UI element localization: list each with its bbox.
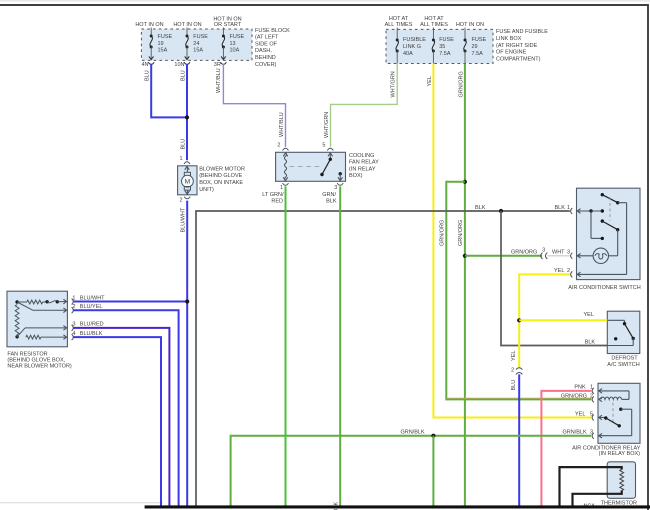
svg-text:YEL: YEL bbox=[554, 268, 564, 274]
svg-text:2: 2 bbox=[590, 393, 593, 399]
defrost a/c switch open contact bbox=[614, 337, 617, 340]
svg-text:PNK: PNK bbox=[574, 385, 586, 391]
wire WHT to air conditioner switch pin 3 bbox=[548, 255, 570, 257]
cooling fan relay switch bbox=[329, 152, 331, 159]
svg-text:YEL: YEL bbox=[427, 76, 433, 86]
wire YEL from air conditioner switch pin 2 bbox=[519, 274, 570, 367]
air conditioner relay pin 3 bbox=[592, 433, 594, 439]
junction GRN/ORG lower bbox=[463, 254, 467, 258]
svg-text:DEFROST: DEFROST bbox=[611, 355, 638, 361]
svg-text:GRN/: GRN/ bbox=[322, 192, 336, 198]
svg-text:GRN/ORG: GRN/ORG bbox=[458, 220, 464, 246]
svg-text:1: 1 bbox=[72, 295, 75, 301]
svg-text:5: 5 bbox=[590, 411, 593, 417]
fuse 29 7.5A bbox=[464, 28, 466, 41]
svg-text:FUSE BLOCK: FUSE BLOCK bbox=[255, 28, 290, 34]
blower motor pin 1 bbox=[184, 162, 190, 164]
cooling fan relay pin 2 bbox=[283, 148, 289, 150]
air conditioner switch S1 internals bbox=[577, 210, 603, 212]
wire WHT/BLU from fuse 13 to cooling fan relay pin 2 bbox=[223, 64, 285, 147]
connector 10N bbox=[184, 62, 190, 64]
cooling fan relay pin 3 contact bbox=[339, 172, 342, 175]
svg-text:2: 2 bbox=[179, 198, 182, 204]
svg-text:1: 1 bbox=[590, 385, 593, 391]
svg-text:GRN/ORG: GRN/ORG bbox=[440, 220, 446, 246]
svg-text:3: 3 bbox=[334, 185, 337, 191]
svg-text:2: 2 bbox=[277, 142, 280, 148]
fan resistor box bbox=[7, 291, 67, 347]
svg-text:YEL: YEL bbox=[511, 351, 517, 361]
wire BLK branch to defrost a/c switch bbox=[501, 211, 607, 346]
svg-text:10A: 10A bbox=[230, 47, 240, 53]
thermistor box bbox=[607, 462, 635, 499]
svg-text:4N: 4N bbox=[141, 62, 148, 68]
svg-text:LT GRN/: LT GRN/ bbox=[262, 192, 284, 198]
svg-text:YEL: YEL bbox=[575, 411, 585, 417]
blower motor pin 2 bbox=[184, 197, 190, 199]
svg-text:BOX): BOX) bbox=[349, 173, 363, 179]
wire BLU/RED fan resistor pin 3 bbox=[73, 328, 169, 506]
fuse 19 15A bbox=[150, 28, 152, 37]
svg-text:YEL: YEL bbox=[584, 312, 594, 318]
air conditioner relay pin 2 bbox=[592, 396, 594, 402]
svg-text:BLU/WHT: BLU/WHT bbox=[80, 295, 105, 301]
wire BLU from fuse 24 to blower motor pin 1 bbox=[186, 64, 188, 160]
svg-text:HOT AT: HOT AT bbox=[389, 16, 409, 22]
svg-text:GRN/ORG: GRN/ORG bbox=[458, 71, 464, 97]
svg-text:29: 29 bbox=[472, 44, 478, 50]
wire BLU to bottom bbox=[518, 374, 520, 506]
air conditioner relay K2 internals bbox=[598, 390, 629, 392]
cooling fan relay pin 5 bbox=[327, 148, 333, 150]
svg-text:DASH,: DASH, bbox=[255, 48, 272, 54]
svg-text:GRN/ORG: GRN/ORG bbox=[511, 250, 537, 256]
cooling fan relay pin 3 bbox=[337, 183, 343, 185]
svg-text:(IN RELAY: (IN RELAY bbox=[349, 166, 376, 172]
svg-text:2: 2 bbox=[72, 304, 75, 310]
svg-text:FUSE: FUSE bbox=[439, 37, 454, 43]
connector 3R bbox=[220, 62, 226, 64]
svg-text:OR START: OR START bbox=[214, 22, 242, 28]
svg-text:BEHIND: BEHIND bbox=[255, 55, 276, 61]
fuse 35 7.5A bbox=[432, 28, 434, 41]
air conditioner relay pin 5 bbox=[592, 415, 594, 421]
svg-text:35: 35 bbox=[439, 44, 445, 50]
wire GRN/ORG from fuse 29 to bottom bbox=[464, 64, 466, 506]
wire BLU/WHT fan resistor pin 1 bbox=[73, 301, 186, 303]
svg-text:BLU: BLU bbox=[180, 70, 186, 81]
svg-text:FUSE AND FUSIBLE: FUSE AND FUSIBLE bbox=[496, 29, 548, 35]
svg-text:BLU: BLU bbox=[145, 70, 151, 81]
fan resistor pin 3 bbox=[72, 325, 74, 331]
air conditioner switch lamp bbox=[593, 248, 608, 263]
svg-text:WHT/BLU: WHT/BLU bbox=[279, 112, 285, 137]
inline connector 3 GRN/ORG to WHT bbox=[541, 253, 543, 259]
svg-text:FUSE: FUSE bbox=[158, 34, 173, 40]
svg-text:HOT AT: HOT AT bbox=[424, 16, 444, 22]
svg-text:FAN RESISTOR: FAN RESISTOR bbox=[7, 351, 47, 357]
svg-text:(BEHIND GLOVE: (BEHIND GLOVE bbox=[199, 173, 242, 179]
cooling fan relay K1 coil bbox=[284, 153, 286, 181]
junction BLU/WHT bbox=[185, 299, 189, 303]
svg-text:(AT RIGHT SIDE: (AT RIGHT SIDE bbox=[496, 43, 538, 49]
svg-text:19: 19 bbox=[158, 41, 164, 47]
svg-text:1: 1 bbox=[280, 185, 283, 191]
svg-text:LINK G: LINK G bbox=[403, 44, 421, 50]
svg-text:ALL TIMES: ALL TIMES bbox=[385, 22, 413, 28]
cooling fan relay mechanical link (dashed) bbox=[290, 165, 322, 167]
svg-text:7.5A: 7.5A bbox=[439, 51, 451, 57]
svg-text:2: 2 bbox=[567, 268, 570, 274]
svg-text:FUSE: FUSE bbox=[472, 37, 487, 43]
svg-text:WHT/GRN: WHT/GRN bbox=[324, 112, 330, 138]
svg-text:13: 13 bbox=[230, 41, 236, 47]
blower motor box bbox=[178, 166, 197, 195]
junction GRN/BLK bbox=[431, 434, 435, 438]
svg-text:FUSE: FUSE bbox=[230, 34, 245, 40]
svg-text:BOX, ON INTAKE: BOX, ON INTAKE bbox=[199, 180, 243, 186]
svg-text:BLOWER MOTOR: BLOWER MOTOR bbox=[199, 166, 245, 172]
inline connector 2 YEL to BLU bbox=[516, 368, 522, 370]
fuse and fusible link box dashed box bbox=[386, 29, 493, 63]
svg-text:40A: 40A bbox=[403, 51, 413, 57]
wire GRN/BLK net to air conditioner relay pin 3 bbox=[231, 436, 592, 506]
svg-text:A/C SWITCH: A/C SWITCH bbox=[607, 362, 639, 368]
svg-text:(AT LEFT: (AT LEFT bbox=[255, 35, 279, 41]
defrost a/c switch box bbox=[607, 311, 640, 353]
svg-text:GRN/ORG: GRN/ORG bbox=[561, 393, 587, 399]
svg-text:15A: 15A bbox=[193, 47, 203, 53]
svg-text:COVER): COVER) bbox=[255, 62, 277, 68]
fuse 24 15A bbox=[186, 28, 188, 37]
wire YEL from fuse 35 to air conditioner relay pin 5 bbox=[433, 64, 591, 418]
svg-text:RED: RED bbox=[271, 198, 283, 204]
svg-text:GRN/BLK: GRN/BLK bbox=[400, 430, 424, 436]
wire BLK ground net from corner to air conditioner switch pin 1 bbox=[196, 211, 570, 506]
wire BLU/BLK fan resistor pin 4 bbox=[73, 337, 161, 506]
svg-text:7.5A: 7.5A bbox=[472, 51, 484, 57]
wire YEL spur to defrost a/c switch bbox=[519, 319, 607, 321]
svg-text:1: 1 bbox=[179, 156, 182, 162]
cooling fan relay box bbox=[276, 152, 346, 181]
svg-text:2: 2 bbox=[511, 368, 514, 374]
svg-text:HOT IN ON: HOT IN ON bbox=[173, 22, 201, 28]
fusible link G 40A bbox=[396, 28, 398, 41]
air conditioner relay box bbox=[598, 383, 640, 443]
wire LT GRN/RED from cooling fan relay pin 1 to bottom bbox=[285, 186, 287, 506]
svg-text:OF ENGINE: OF ENGINE bbox=[496, 50, 527, 56]
air conditioner switch pin 1 bbox=[571, 208, 573, 214]
svg-text:3R: 3R bbox=[214, 62, 221, 68]
svg-text:15A: 15A bbox=[158, 47, 168, 53]
svg-text:WHT: WHT bbox=[552, 250, 565, 256]
air conditioner switch box bbox=[577, 188, 641, 279]
fan resistor R1 internals bbox=[15, 305, 19, 335]
svg-text:5: 5 bbox=[322, 142, 325, 148]
svg-text:GRN/BLK: GRN/BLK bbox=[563, 430, 587, 436]
svg-text:BLK: BLK bbox=[555, 205, 566, 211]
junction BLK bbox=[499, 209, 503, 213]
air conditioner relay pin 1 bbox=[592, 388, 594, 394]
cooling fan relay pin 1 bbox=[283, 183, 289, 185]
wire BLU/YEL fan resistor pin 2 bbox=[73, 310, 179, 506]
svg-text:(BEHIND GLOVE BOX,: (BEHIND GLOVE BOX, bbox=[7, 357, 65, 363]
blower motor M1 internals bbox=[186, 166, 188, 173]
svg-text:SIDE OF: SIDE OF bbox=[255, 41, 278, 47]
junction GRN/ORG upper bbox=[463, 180, 467, 184]
thermistor R2 internals bbox=[620, 470, 624, 491]
wire GRN/ORG spur to inline connector bbox=[465, 255, 542, 257]
fan resistor pin 2 bbox=[72, 307, 74, 313]
wire BLU from fuse 19 to junction bbox=[151, 64, 186, 118]
svg-text:BLU/BLK: BLU/BLK bbox=[80, 331, 103, 337]
svg-text:WHT/BLU: WHT/BLU bbox=[216, 68, 222, 93]
svg-text:BLU/RED: BLU/RED bbox=[80, 322, 104, 328]
svg-text:AIR CONDITIONER SWITCH: AIR CONDITIONER SWITCH bbox=[568, 285, 640, 291]
fan resistor pin 1 bbox=[72, 299, 74, 305]
fuse 13 10A bbox=[222, 28, 224, 37]
svg-text:WHT/GRN: WHT/GRN bbox=[391, 71, 397, 97]
wire GRN/BLK from cooling fan relay pin 3 to bottom bbox=[339, 186, 341, 506]
svg-text:ALL TIMES: ALL TIMES bbox=[420, 22, 448, 28]
svg-text:3: 3 bbox=[567, 250, 570, 256]
svg-text:(IN RELAY BOX): (IN RELAY BOX) bbox=[599, 451, 641, 457]
wire PNK from air conditioner relay pin 1 bbox=[541, 391, 591, 506]
wire GRN/BLK drop to bottom bbox=[432, 436, 434, 506]
svg-text:3: 3 bbox=[590, 430, 593, 436]
connector 4N bbox=[148, 62, 154, 64]
svg-text:M: M bbox=[185, 179, 191, 186]
defrost a/c switch S2 internals bbox=[607, 319, 624, 321]
svg-text:24: 24 bbox=[193, 41, 199, 47]
wire to thermistor (top lead) bbox=[560, 467, 622, 507]
svg-text:BLU/YEL: BLU/YEL bbox=[80, 304, 103, 310]
svg-text:BLU/WHT: BLU/WHT bbox=[181, 207, 187, 232]
svg-text:BLU: BLU bbox=[511, 380, 517, 391]
junction BLU bbox=[185, 115, 189, 119]
svg-text:BLU: BLU bbox=[180, 139, 186, 150]
svg-text:BLK: BLK bbox=[475, 205, 486, 211]
svg-text:3: 3 bbox=[542, 247, 545, 253]
fuse block (at left side of dash) dashed box bbox=[141, 29, 252, 60]
svg-text:HOT IN ON: HOT IN ON bbox=[456, 22, 484, 28]
svg-text:HOT IN ON: HOT IN ON bbox=[135, 22, 163, 28]
svg-text:UNIT): UNIT) bbox=[199, 187, 214, 193]
svg-text:BLK: BLK bbox=[585, 339, 596, 345]
svg-text:NEAR BLOWER MOTOR): NEAR BLOWER MOTOR) bbox=[7, 364, 72, 370]
svg-text:COOLING: COOLING bbox=[349, 153, 374, 159]
svg-text:FUSIBLE: FUSIBLE bbox=[403, 37, 426, 43]
svg-text:1: 1 bbox=[567, 205, 570, 211]
air conditioner switch pin 3 bbox=[571, 253, 573, 259]
air conditioner switch pin 2 bbox=[571, 271, 573, 277]
svg-text:BLK: BLK bbox=[326, 198, 337, 204]
wire to thermistor (bottom lead) NCA bbox=[573, 491, 622, 508]
svg-text:COMPARTMENT): COMPARTMENT) bbox=[496, 56, 541, 62]
svg-text:LINK BOX: LINK BOX bbox=[496, 36, 522, 42]
svg-text:10N: 10N bbox=[174, 62, 184, 68]
wire WHT/GRN from fusible link G to cooling fan relay pin 5 bbox=[331, 64, 398, 147]
wire BLU/WHT from blower motor pin 2 to bottom bbox=[186, 201, 188, 506]
junction YEL bbox=[517, 318, 521, 322]
fan resistor pin 4 bbox=[72, 334, 74, 340]
svg-text:FUSE: FUSE bbox=[193, 34, 208, 40]
wire GRN/ORG branch to air conditioner relay pin 2 bbox=[446, 182, 591, 400]
svg-text:FAN RELAY: FAN RELAY bbox=[349, 160, 379, 166]
